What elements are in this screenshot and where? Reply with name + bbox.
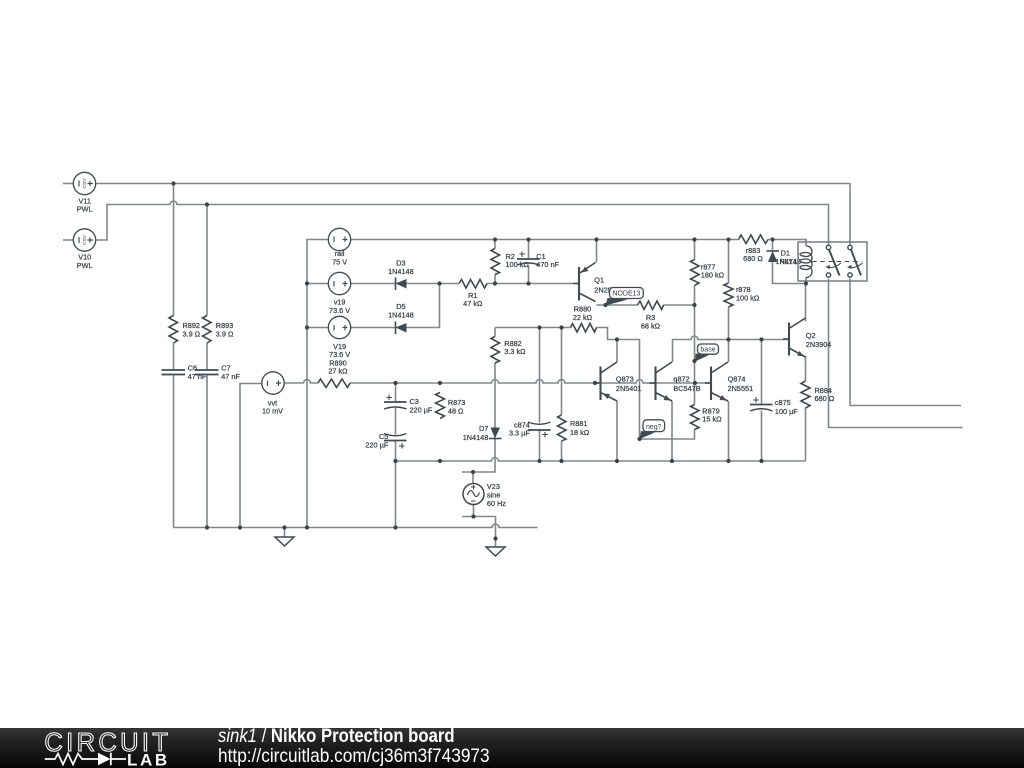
junction base row / R879 column: [693, 381, 697, 385]
svg-text:48 Ω: 48 Ω: [448, 406, 464, 415]
wire q872 collector row to Q2 base (hop over base column): [673, 336, 790, 362]
capacitor C3 plus sign: [387, 395, 393, 401]
svg-text:3.3 µF: 3.3 µF: [509, 429, 530, 438]
wire relay switch 1 output: [829, 279, 963, 428]
svg-text:Q2: Q2: [806, 331, 816, 340]
wire Q873 collector lead: [616, 340, 618, 363]
resistor R880: [571, 324, 597, 333]
wire R893 to C7: [206, 343, 208, 370]
junction V11 row / R892 column: [171, 181, 175, 185]
wire R893 column upper: [206, 205, 208, 316]
relay RLY1 coil top pin: [805, 240, 807, 247]
svg-text:V23: V23: [487, 482, 500, 491]
diode D3 1N4148: [396, 278, 407, 291]
wire c875 bottom lead: [761, 411, 763, 462]
junction return rail / q872 emitter: [670, 459, 674, 463]
svg-text:180 kΩ: 180 kΩ: [701, 271, 725, 280]
junction base row / Q873 base: [593, 381, 597, 385]
wire Q873 emitter lead: [616, 401, 618, 461]
wire Q1 emitter lead: [596, 240, 598, 263]
svg-text:27 kΩ: 27 kΩ: [328, 367, 348, 376]
junction Q2 base row / r878: [726, 337, 730, 341]
junction row B / c874: [537, 325, 541, 329]
svg-text:Q874: Q874: [728, 375, 746, 384]
svg-text:base: base: [700, 346, 715, 353]
footer bar: [0, 728, 1024, 768]
junction R3 / base column: [692, 303, 696, 307]
junction neg flag anchor: [637, 437, 641, 441]
svg-text:LAB: LAB: [127, 751, 170, 768]
svg-text:R3: R3: [646, 313, 655, 322]
resistor R879: [691, 405, 700, 430]
junction base row / R873: [438, 381, 442, 385]
relay RLY1 coil: [800, 246, 812, 278]
wire component return rail (hop over D7 column): [396, 458, 806, 461]
svg-text:18 kΩ: 18 kΩ: [570, 428, 590, 437]
wire V11 output row to relay switch 2: [96, 184, 850, 246]
svg-text:22 kΩ: 22 kΩ: [573, 313, 593, 322]
junction R1 row / R2: [493, 281, 497, 285]
junction top rail / r877: [692, 237, 696, 241]
wire c875 top lead: [761, 340, 763, 405]
wire R1 to Q1 base: [487, 283, 573, 285]
junction top rail / R2: [493, 237, 497, 241]
wire R880 right to neg column: [597, 328, 640, 440]
voltage source V11 (PWL): [73, 172, 95, 194]
wire C1 top lead: [528, 240, 530, 260]
junction base flag anchor: [692, 359, 696, 363]
voltage source rail: [328, 228, 350, 250]
ground symbol (V23): [486, 539, 505, 557]
CircuitLab logo: [38, 729, 183, 768]
wire D3 D5 junction link: [407, 284, 440, 328]
junction D3 output: [437, 281, 441, 285]
resistor r883: [739, 235, 769, 244]
svg-text:CSV: CSV: [82, 234, 88, 245]
transistor q872 (NPN BC547B): [650, 362, 673, 401]
capacitor c875 plus sign: [753, 397, 759, 403]
svg-text:220 µF: 220 µF: [365, 441, 388, 450]
resistor r878: [724, 283, 733, 307]
junction V10 row / R893 column: [205, 202, 209, 206]
capacitor C5: [384, 434, 407, 441]
junction ground rail / ground symbol: [282, 525, 286, 529]
svg-text:47 kΩ: 47 kΩ: [463, 299, 483, 308]
junction return rail / R873: [438, 459, 442, 463]
junction V23 ground stub: [493, 536, 497, 540]
svg-text:3.3 kΩ: 3.3 kΩ: [504, 347, 526, 356]
svg-text:100 kΩ: 100 kΩ: [736, 293, 760, 302]
svg-text:100 µF: 100 µF: [775, 407, 798, 416]
svg-text:1N4148: 1N4148: [463, 433, 489, 442]
wire r883 to relay coil pin: [768, 240, 806, 245]
svg-text:Q873: Q873: [616, 375, 634, 384]
junction top rail / D1: [770, 237, 774, 241]
wire Q1 collector row to R3: [597, 304, 638, 306]
junction supply column / V19: [305, 325, 309, 329]
capacitor c875: [750, 405, 773, 412]
wire R882 to D7: [494, 363, 496, 428]
junction row B / R881: [559, 325, 563, 329]
wire r878 bottom lead: [728, 307, 730, 340]
voltage source V10 (PWL): [73, 229, 95, 251]
capacitor C1: [517, 259, 540, 265]
wire R892 column upper: [173, 184, 175, 316]
svg-text:NODE13: NODE13: [612, 291, 640, 298]
wire top rail: [351, 239, 739, 241]
resistor R881: [558, 415, 567, 441]
resistor R892: [169, 316, 178, 344]
svg-text:Q1: Q1: [594, 275, 604, 284]
wire V11 left lead: [63, 183, 74, 185]
resistor r877: [691, 260, 700, 286]
capacitor C3: [384, 402, 407, 409]
voltage source vvt: [262, 372, 284, 394]
wire r878 top lead: [728, 240, 730, 284]
svg-text:2N5401: 2N5401: [616, 384, 642, 393]
capacitor C5 plus sign: [399, 443, 405, 449]
relay RLY1 dashed actuator link: [812, 261, 862, 263]
capacitor C7: [195, 370, 219, 375]
wire Q874 collector lead: [728, 340, 730, 363]
wire vvt negative lead to ground rail: [240, 384, 262, 528]
wire base row R890 to Q874 (hops over R882, c874, R881, neg columns): [350, 380, 711, 384]
junction ground rail / supply column: [305, 525, 309, 529]
resistor R890: [318, 379, 350, 388]
voltage source V19: [328, 316, 350, 338]
svg-text:220 µF: 220 µF: [410, 406, 433, 415]
svg-text:CSV: CSV: [82, 178, 88, 189]
wire D7 to V23 top bar: [462, 439, 495, 473]
capacitor C6: [162, 370, 186, 375]
transistor Q1 (PNP 2N2907): [573, 263, 596, 302]
wire C1 bottom lead: [528, 266, 530, 284]
voltage source v19: [328, 272, 350, 294]
svg-text:75 V: 75 V: [332, 258, 347, 267]
wire R882 top lead: [494, 328, 496, 337]
wire R884 bottom lead: [805, 408, 807, 461]
svg-text:2N5551: 2N5551: [728, 384, 754, 393]
wire v19 left lead: [307, 283, 329, 285]
junction top rail / r878: [726, 237, 730, 241]
svg-text:680 Ω: 680 Ω: [743, 254, 763, 263]
svg-text:PWL: PWL: [77, 205, 93, 214]
relay switch 1 contacts: [826, 245, 842, 277]
capacitor C1 plus sign: [520, 252, 526, 258]
junction return rail / c875: [759, 459, 763, 463]
wire R879 bottom to neg node: [640, 430, 695, 440]
wire R3 to base column: [664, 304, 695, 306]
junction return rail / c874: [537, 459, 541, 463]
svg-text:neg?: neg?: [646, 424, 662, 431]
wire R881 bottom lead: [561, 441, 563, 461]
wire C3 to C5: [395, 408, 397, 435]
svg-text:q872: q872: [673, 375, 689, 384]
wire D3 to R1: [407, 283, 460, 285]
junction Q873 collector row: [615, 337, 619, 341]
resistor R893: [203, 316, 212, 344]
wire Q2 emitter to R884: [805, 356, 807, 381]
diode D5 1N4148: [396, 322, 407, 335]
wire C5 bottom lead to ground rail: [395, 441, 397, 528]
wire relay coil bottom pin: [805, 278, 807, 284]
resistor R3: [638, 301, 664, 310]
node flag base: [695, 344, 719, 362]
junction return rail / C5 column: [393, 459, 397, 463]
junction NODE13 anchor: [603, 303, 607, 307]
svg-text:2N3904: 2N3904: [806, 340, 832, 349]
title text: [218, 727, 520, 766]
wire Q2 collector lead: [805, 284, 807, 322]
svg-text:60 Hz: 60 Hz: [487, 499, 506, 508]
wire V10 output row to relay switch 1 (hop over R892 column): [96, 201, 829, 245]
wire c874 column upper: [539, 328, 541, 423]
wire r877 top lead: [694, 240, 696, 260]
svg-text:15 kΩ: 15 kΩ: [702, 415, 722, 424]
ground symbol (left): [275, 528, 294, 547]
junction Q2 base row / c875: [759, 337, 763, 341]
wire D1 top lead: [772, 240, 774, 252]
svg-text:PWL: PWL: [77, 261, 93, 270]
resistor R884: [801, 381, 810, 408]
svg-text:47 nF: 47 nF: [188, 372, 207, 381]
wire V19 to D5: [351, 327, 396, 329]
junction return rail / Q873 emitter: [615, 459, 619, 463]
svg-text:3.9 Ω: 3.9 Ω: [216, 329, 234, 338]
wire vvt positive lead to R890 (hop over supply column): [285, 380, 319, 384]
wire D1 bottom to relay coil return: [773, 262, 807, 284]
junction supply column / v19: [305, 281, 309, 285]
junction return rail / Q874 emitter: [726, 459, 730, 463]
relay switch 2 contacts: [847, 245, 863, 277]
svg-text:1N4148: 1N4148: [388, 267, 414, 276]
wire ground rail (hop over V23 return): [174, 524, 538, 528]
junction V23 top pin: [471, 470, 475, 474]
relay RLY1 box: [798, 242, 867, 281]
wire V10 left lead: [63, 239, 74, 241]
transistor Q2 (NPN 2N3904): [783, 318, 806, 357]
node flag neg?: [640, 420, 665, 439]
wire C3 top lead: [395, 383, 397, 402]
junction V23 bottom pin: [471, 514, 475, 518]
wire base column r877 to R879: [694, 286, 696, 405]
svg-text:68 kΩ: 68 kΩ: [641, 322, 661, 331]
resistor R1: [459, 280, 487, 289]
capacitor c874 plus sign: [543, 432, 549, 438]
diode D1 1N4148: [767, 251, 780, 262]
wire C6 down to ground rail: [173, 375, 175, 528]
svg-text:470 nF: 470 nF: [536, 260, 559, 269]
wire V23 top lead: [472, 472, 474, 483]
resistor R2: [491, 249, 500, 275]
voltage source V23 (sine 60 Hz): [463, 484, 484, 505]
junction top rail / C1: [526, 237, 530, 241]
svg-text:R881: R881: [570, 419, 587, 428]
junction relay coil return / Q2 collector: [804, 281, 808, 285]
resistor R882: [491, 337, 500, 364]
junction ground rail / C7: [205, 525, 209, 529]
wire Q874 emitter lead: [728, 401, 730, 461]
wire R892 to C6: [173, 343, 175, 370]
wire V19 left lead: [307, 327, 329, 329]
wire v19 to D3: [351, 283, 396, 285]
svg-text:3.9 Ω: 3.9 Ω: [183, 329, 201, 338]
svg-text:47 nF: 47 nF: [221, 372, 240, 381]
junction return rail / R881: [559, 459, 563, 463]
svg-text:1N4148: 1N4148: [388, 311, 414, 320]
diode D7 1N4148: [489, 428, 502, 439]
resistor R873: [436, 393, 445, 419]
svg-text:BC547B: BC547B: [673, 384, 700, 393]
wire R2 bottom lead: [494, 275, 496, 284]
wire relay switch 2 output: [850, 279, 961, 406]
svg-text:RLY1: RLY1: [780, 257, 798, 266]
transistor Q873 (PNP 2N5401): [595, 362, 618, 401]
wire row B to R880 (left): [495, 327, 571, 329]
svg-text:680 Ω: 680 Ω: [815, 394, 835, 403]
wire q872 emitter lead: [671, 401, 673, 461]
svg-text:10 mV: 10 mV: [262, 407, 283, 416]
capacitor c874: [528, 422, 551, 430]
wire R2 top lead: [494, 240, 496, 249]
wire left supply column: [307, 240, 329, 528]
junction base row / C3: [393, 381, 397, 385]
junction ground rail / C5 column: [393, 525, 397, 529]
wire R881 top lead: [561, 328, 563, 416]
wire V23 bottom bar to ground: [462, 517, 496, 539]
node flag NODE13: [606, 288, 644, 306]
svg-text:73.6 V: 73.6 V: [329, 306, 350, 315]
wire c874 bottom lead: [539, 430, 541, 461]
junction ground rail / vvt return: [238, 525, 242, 529]
junction R1 row / C1: [526, 281, 530, 285]
wire C7 down to ground rail: [206, 375, 208, 528]
junction top rail / Q1 emitter: [594, 237, 598, 241]
wire V23 bottom lead: [473, 505, 475, 517]
transistor Q874 (NPN 2N5551): [705, 362, 728, 401]
